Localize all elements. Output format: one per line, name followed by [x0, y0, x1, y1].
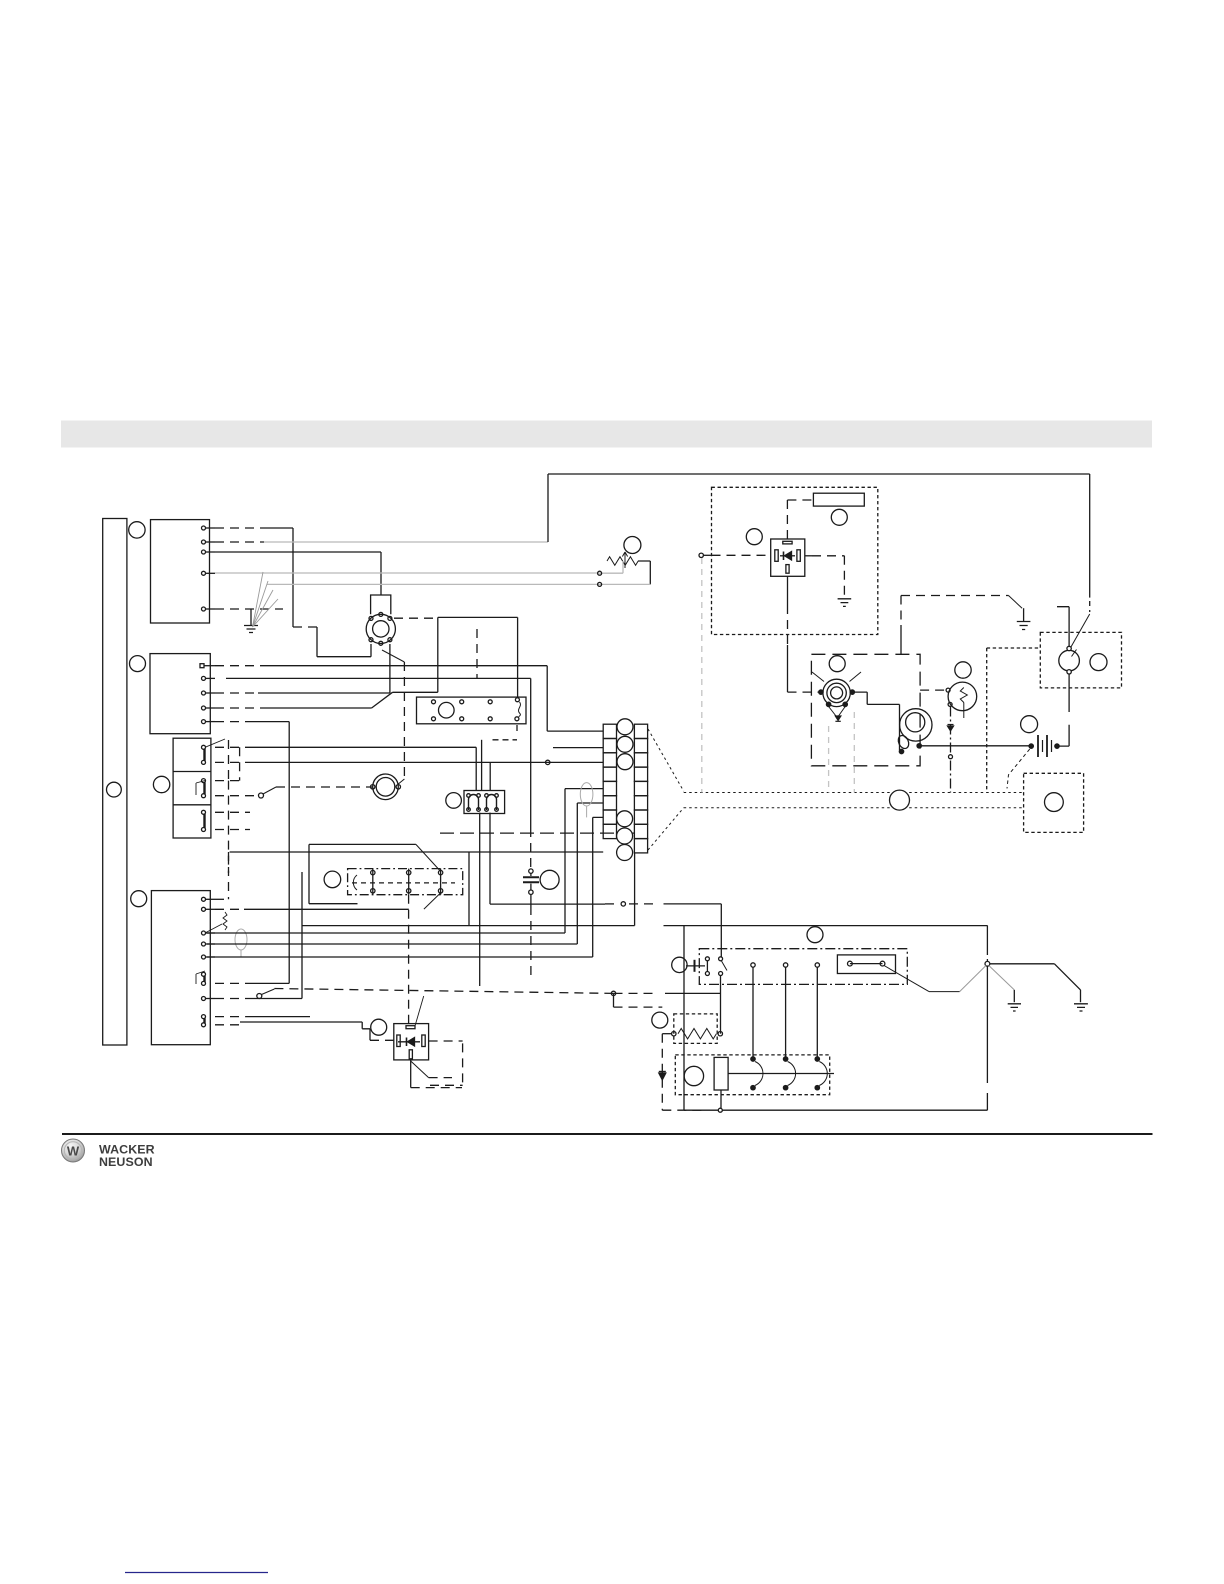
temp sender B2: [946, 682, 977, 718]
wire to oil pressure sender: [263, 787, 373, 794]
ground witness fan: [253, 572, 279, 627]
connector X2: [150, 654, 210, 734]
wire switch to glow resistor: [720, 975, 722, 1034]
wire drop to charge lamp: [1071, 474, 1090, 648]
node 8 label (fuses): [446, 793, 462, 809]
header gray band: [61, 421, 1152, 448]
relay input terminal: [699, 553, 771, 792]
battery witness dashed: [1007, 749, 1030, 788]
flasher relay K1: [394, 1024, 429, 1060]
crossing loop marker: [235, 929, 247, 957]
fuse stack terminals: [196, 739, 225, 832]
ground G2: [1008, 1004, 1021, 1011]
relay coil dashed leads: [787, 500, 813, 541]
glow plugs R2: [353, 869, 442, 895]
dropping resistor R3: [672, 1029, 723, 1039]
wire bus to connector foot: [293, 627, 371, 657]
node 6 label: [324, 871, 341, 888]
wire X1.3 to round connector: [215, 552, 381, 595]
wire to temp sender: [920, 689, 946, 691]
wire X3.5: [207, 956, 593, 958]
wire starter to battery: [921, 745, 1029, 747]
wire X3.4: [207, 943, 577, 945]
capacitor C1: [523, 869, 539, 975]
preheat relay K2: [771, 539, 805, 576]
svg-text:W: W: [67, 1144, 80, 1159]
wire fuse to strip bottom: [490, 813, 635, 926]
relay label plate: [813, 493, 864, 506]
relay output to ground: [805, 556, 845, 595]
wire X1.1 dashed to bus: [215, 527, 260, 529]
wire X3.3: [207, 932, 565, 934]
node 1 label: [129, 522, 145, 538]
terminal strip eyelets: [617, 719, 633, 861]
fuse block F1/F2: [464, 791, 505, 814]
wire X1.2 dashed: [215, 541, 264, 543]
hidden wires gray: [829, 712, 855, 793]
node 7 label (flasher): [371, 1019, 387, 1035]
Wacker Neuson logo medallion: [62, 1139, 85, 1162]
wire X2.4 bridge over cover plate: [215, 617, 518, 708]
node 5 label (rheostat): [624, 537, 641, 554]
risers to terminal strip: [565, 789, 603, 957]
glow plug box (dash-dot): [348, 869, 463, 895]
wire X2.1 to terminal strip: [215, 666, 603, 731]
node 21 label (battery): [1021, 716, 1038, 733]
glow box bus dashed: [352, 882, 455, 884]
wire X2.5 long drop: [215, 722, 289, 984]
oil pressure sender B1: [371, 774, 401, 800]
node 3 label: [153, 776, 169, 792]
fuse block risers: [489, 762, 491, 790]
battery BAT: [1029, 725, 1069, 757]
wire gray return line: [267, 583, 600, 585]
wire glow bottom bus: [662, 1090, 722, 1112]
node 24 label: [1045, 793, 1064, 812]
wire to frame grounds: [884, 964, 1081, 1002]
wire panel branch: [614, 993, 721, 1007]
wire lamp to battery: [1068, 674, 1070, 712]
wire accessory dashed: [901, 596, 1022, 655]
node 11 label (dropping resistor): [652, 1012, 668, 1028]
fuse holder stack: [173, 738, 211, 838]
flasher top feed: [409, 895, 424, 1026]
connector X3 pins: [196, 897, 215, 1027]
fuel solenoid dashed box: [1024, 773, 1084, 832]
wire X3.8: [215, 998, 302, 1000]
charge lamp box (dashed): [1040, 632, 1121, 688]
wire ignition to starter: [855, 692, 902, 750]
svg-text:NEUSON: NEUSON: [99, 1155, 153, 1169]
node 14 label: [831, 509, 847, 525]
wire X1.5 dashed to ground: [215, 608, 283, 610]
terminal strip TB1 squares: [603, 724, 647, 853]
X3.3 witness spring: [205, 912, 227, 933]
node 22 label (temp sender): [955, 662, 971, 678]
wire fuse feeds: [215, 747, 603, 873]
glow relay contacts: [751, 1057, 828, 1090]
wire strip row to glow area: [230, 851, 604, 853]
node 17 label: [807, 927, 823, 943]
wire X3.2 to start switch: [215, 852, 721, 957]
node 10 label (start switch): [672, 957, 687, 972]
cover plate: [417, 697, 527, 724]
node 2 label: [130, 656, 146, 672]
wires contacts to switch box: [751, 963, 820, 1057]
connector X3: [151, 891, 210, 1045]
wire bracket over glow box: [309, 844, 416, 903]
node 20 on rail: [107, 782, 122, 797]
engine group box: [302, 872, 987, 1110]
wire X1.4 gray sender line: [215, 572, 600, 574]
wire dashed drop to X2.2: [476, 629, 478, 678]
round connector P1: [366, 612, 395, 645]
wire temp sender drop (dash-dot): [948, 707, 954, 793]
node 15 label: [746, 529, 762, 545]
connector X1: [151, 520, 210, 623]
wiring harness rail: [103, 519, 127, 1046]
connector X1 pins: [202, 526, 216, 611]
glow relay box (dashed): [675, 1055, 829, 1095]
wire X3.8 to panel (sloped): [257, 989, 614, 999]
bottom hyperlink line: [125, 1572, 268, 1574]
rheostat R1: [598, 552, 651, 586]
solenoid plate: [837, 955, 895, 974]
loop marker 2: [580, 783, 593, 818]
preheat relay box (dashed): [712, 487, 878, 634]
round connector shroud: [371, 595, 391, 614]
wire X3.1 riser: [215, 740, 229, 899]
wire lamp feed bracket: [1057, 607, 1069, 647]
node 23 label: [1090, 654, 1107, 671]
Wacker Neuson wordmark: [99, 1143, 155, 1170]
ground G5: [838, 599, 852, 607]
glow relay element: [714, 1057, 834, 1090]
node 18 on harness: [890, 790, 910, 810]
wire fuse riser long drop: [479, 813, 481, 986]
harness spread dotted: [648, 729, 1024, 850]
node junction on panel wire: [611, 991, 615, 995]
instrument dashed box: [987, 648, 1041, 793]
ground G1: [244, 609, 258, 633]
node 16 junction: [985, 961, 990, 966]
node 19 junction: [259, 793, 264, 798]
charge lamp H1: [1059, 646, 1080, 674]
wire sender drop from P1: [382, 650, 404, 784]
diode D1: [659, 1072, 666, 1080]
ignition switch S2: [812, 672, 861, 721]
dropping resistor R3 box: [674, 1014, 717, 1044]
glow box witness lines: [416, 844, 441, 909]
node 12 label: [684, 1066, 703, 1085]
long-dash bus: [440, 832, 635, 834]
start switch S1: [686, 957, 727, 976]
wire bus vertical: [292, 528, 294, 627]
wire from P1 right dashed: [394, 617, 438, 619]
node 13 label (ignition): [829, 656, 845, 672]
wire X1.2 gray run: [264, 541, 548, 543]
wire main feed top: [548, 474, 1090, 542]
ground G4: [1017, 608, 1031, 629]
ignition housing (long dash): [811, 654, 920, 766]
start switch box (dash-dot): [699, 949, 907, 985]
footer rule: [62, 1133, 1153, 1135]
wire flasher feed drop: [788, 576, 819, 692]
connector X2 pins: [200, 664, 215, 724]
wire X3.9 to riser: [215, 1016, 310, 1018]
wire X3.10 to flasher coil: [215, 1022, 394, 1040]
flasher leads: [411, 1041, 463, 1088]
node 4 label: [131, 891, 147, 907]
wire X2.2 to capacitor: [226, 678, 531, 828]
wire resistor left drop: [662, 1034, 671, 1111]
starter motor M1: [896, 709, 932, 754]
ground G3: [1074, 1004, 1088, 1011]
node 9 label (capacitor): [540, 870, 559, 889]
wire X2.3 to P1 foot: [215, 644, 390, 693]
